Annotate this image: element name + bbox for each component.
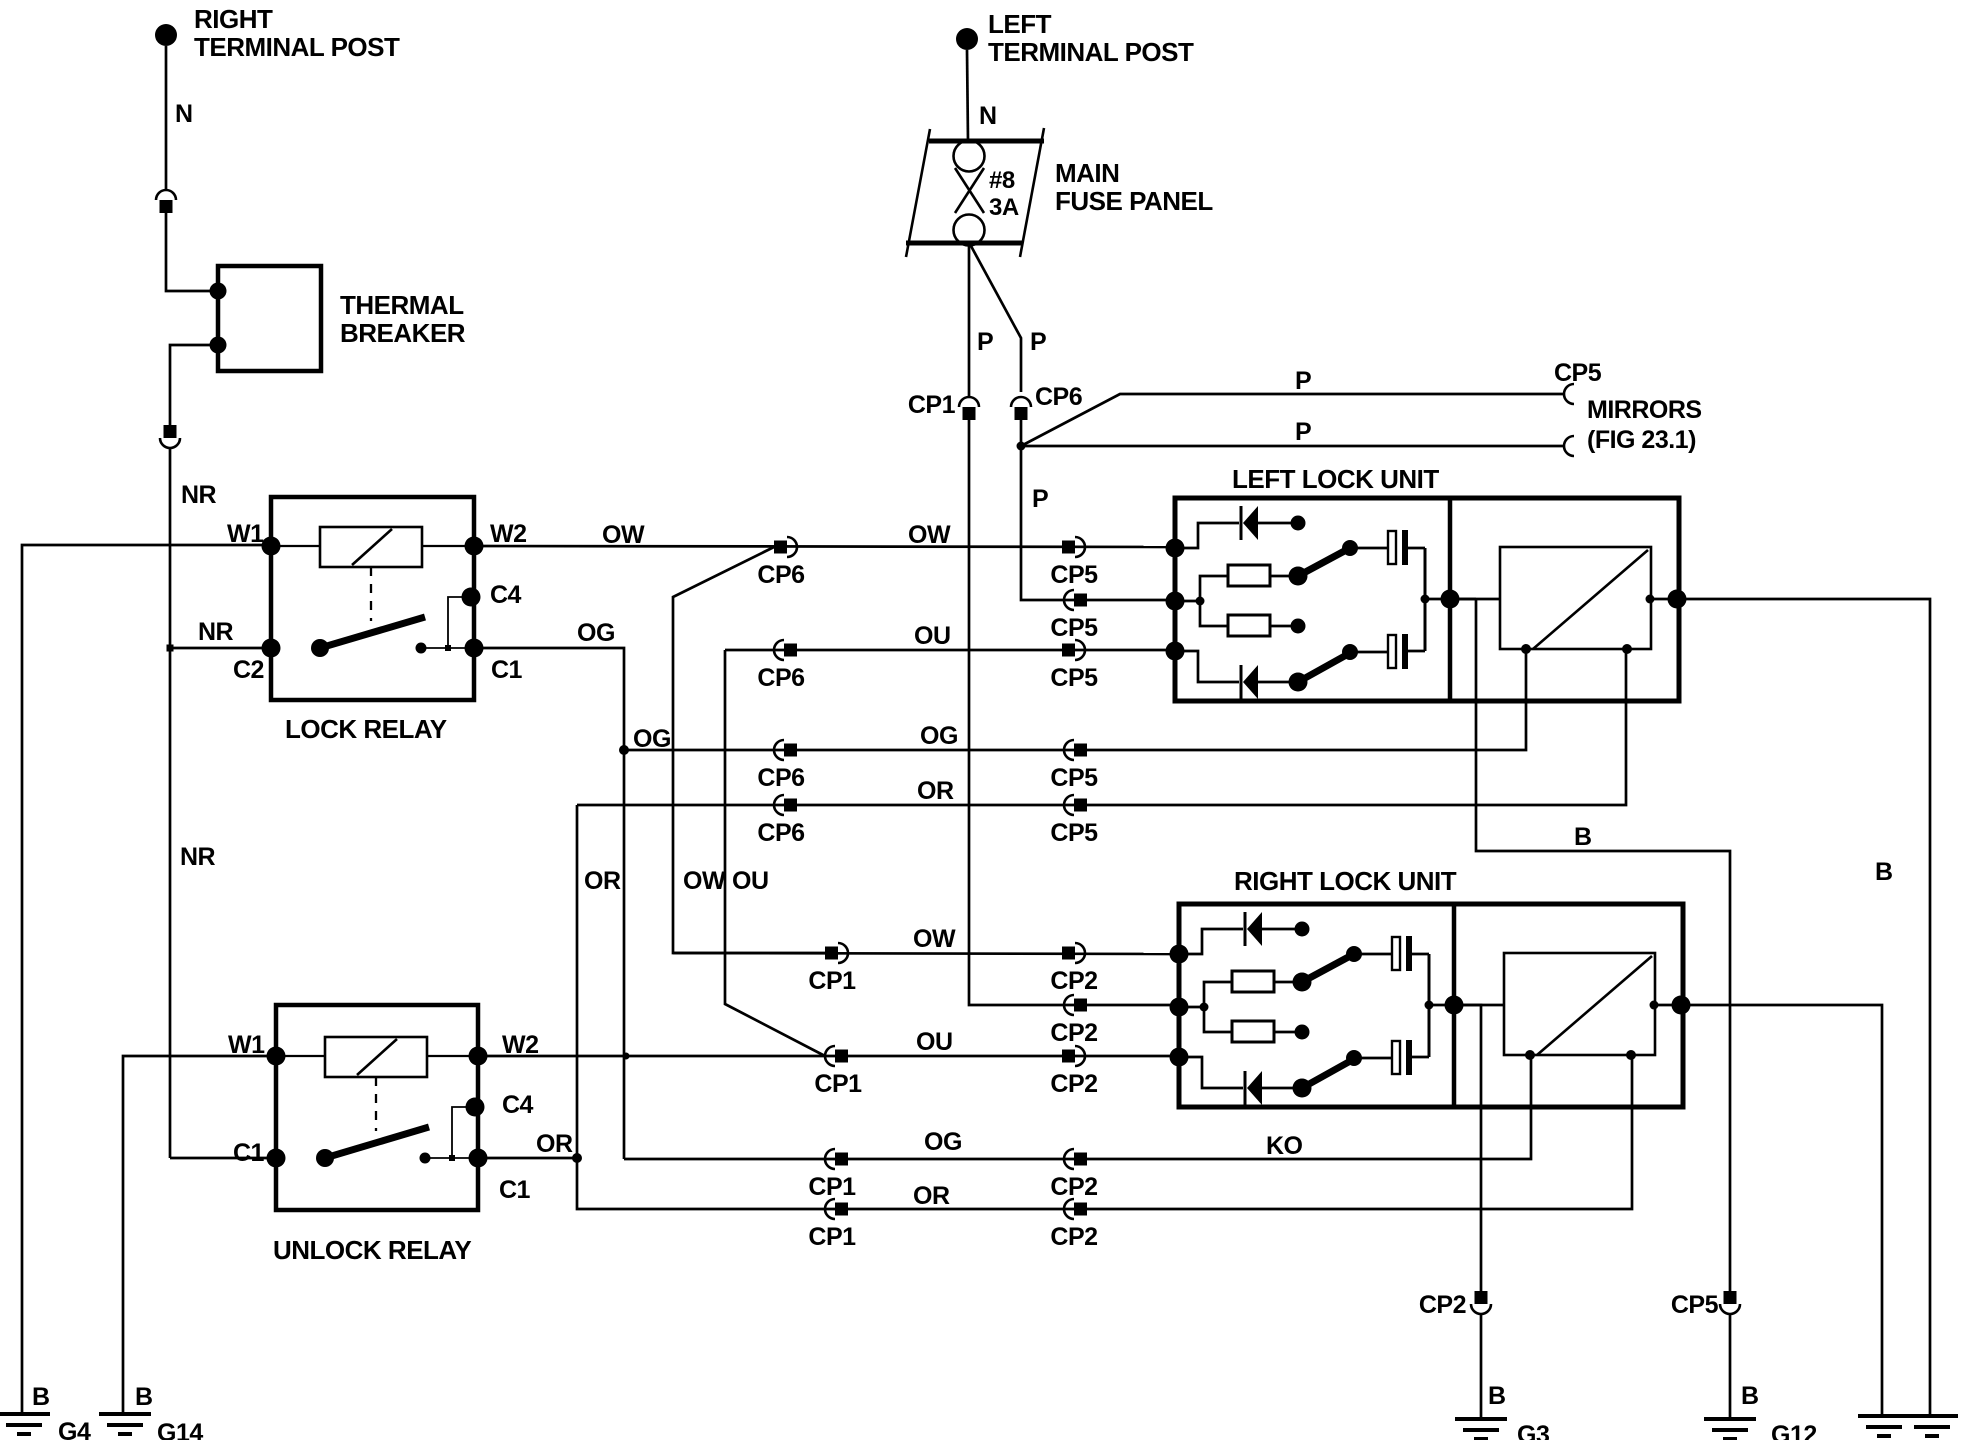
wire OW row (lock relay W2 to left lock unit)	[474, 521, 1175, 549]
wire OW branch to right lock unit	[673, 547, 825, 953]
svg-text:CP5: CP5	[1050, 664, 1098, 692]
unlock relay terminal W1	[228, 1031, 286, 1066]
svg-text:OR: OR	[536, 1130, 573, 1158]
left lock unit capacitor 1	[1350, 530, 1425, 565]
connector CP6 below fuse	[1011, 383, 1082, 420]
thermal breaker	[210, 266, 466, 371]
right lock unit terminal 1	[1170, 945, 1189, 964]
svg-text:3A: 3A	[989, 194, 1019, 221]
right lock unit box	[1179, 904, 1683, 1107]
ground G14	[99, 1383, 203, 1440]
wire NR	[170, 448, 217, 648]
connector CP2 on OR row	[1050, 1199, 1097, 1251]
svg-text:CP5: CP5	[1554, 359, 1602, 387]
svg-text:CP1: CP1	[808, 1223, 856, 1251]
connector CP2 on right P row	[1050, 995, 1097, 1047]
left lock unit diode 2	[1175, 651, 1291, 699]
wire OG drop to right lock unit KO row	[623, 750, 630, 1159]
wire OR row (left lock unit)	[577, 651, 1626, 805]
lock relay switch	[311, 617, 427, 657]
wire N (left)	[967, 50, 997, 141]
svg-text:C1: C1	[491, 656, 523, 684]
right lock unit capacitor common wire	[1425, 954, 1450, 1057]
wire B from right lock unit right terminal	[1681, 1005, 1882, 1415]
right lock unit divider	[1452, 906, 1457, 1105]
svg-text:(FIG 23.1): (FIG 23.1)	[1587, 426, 1696, 454]
left lock unit terminal 2	[1166, 592, 1185, 611]
svg-text:CP6: CP6	[757, 664, 804, 692]
right lock unit motor	[1454, 953, 1672, 1060]
label MIRRORS (FIG 23.1)	[1587, 396, 1702, 454]
wire CP2 to ground G3	[1480, 1314, 1483, 1418]
junction NR / C2 row	[167, 645, 174, 652]
svg-text:C1: C1	[499, 1176, 531, 1204]
connector CP5 on P row	[1050, 590, 1098, 642]
svg-text:KO: KO	[1266, 1132, 1303, 1160]
svg-text:B: B	[135, 1383, 153, 1411]
svg-text:THERMAL: THERMAL	[340, 290, 464, 320]
ground (far right inner)	[1858, 1416, 1910, 1436]
svg-text:OU: OU	[732, 867, 769, 895]
svg-text:OG: OG	[920, 722, 958, 750]
ground G12	[1704, 1382, 1817, 1440]
right lock unit right terminal	[1672, 996, 1691, 1015]
unlock relay switch	[316, 1127, 431, 1167]
connector CP5 on OU row	[1050, 640, 1098, 692]
wire B from left lock unit right terminal	[1677, 599, 1930, 1415]
svg-text:CP1: CP1	[908, 391, 956, 419]
wire OG from lock relay C1	[474, 619, 624, 750]
svg-text:NR: NR	[180, 843, 216, 871]
wire P to mirrors (lower)	[1021, 418, 1563, 446]
connector CP5 on OR row	[1050, 795, 1098, 847]
ground G4	[0, 1383, 91, 1440]
svg-text:TERMINAL POST: TERMINAL POST	[988, 37, 1194, 67]
left lock unit terminal 3	[1166, 642, 1185, 661]
svg-text:CP1: CP1	[814, 1070, 862, 1098]
unlock relay terminal W2	[469, 1031, 539, 1066]
wire OG row (left lock unit)	[624, 651, 1526, 753]
svg-text:CP5: CP5	[1050, 614, 1098, 642]
svg-text:FUSE PANEL: FUSE PANEL	[1055, 186, 1213, 216]
svg-text:P: P	[1295, 418, 1311, 446]
connector CP5 on OG row	[1050, 740, 1098, 792]
svg-text:CP1: CP1	[808, 967, 856, 995]
connector CP2 above ground G3	[1419, 1291, 1491, 1319]
svg-text:OG: OG	[924, 1128, 962, 1156]
svg-text:CP2: CP2	[1050, 1019, 1097, 1047]
svg-text:LEFT LOCK UNIT: LEFT LOCK UNIT	[1232, 464, 1439, 494]
svg-text:B: B	[1741, 1382, 1759, 1410]
svg-text:CP6: CP6	[1035, 383, 1082, 411]
svg-text:CP5: CP5	[1050, 764, 1098, 792]
lock relay coil	[271, 527, 474, 621]
wire P from fuse (left branch)	[969, 245, 993, 397]
svg-text:CP5: CP5	[1050, 561, 1098, 589]
wire OU drop to CP1	[725, 650, 825, 1056]
left lock unit resistor 1	[1175, 565, 1289, 606]
right lock unit junction node	[1445, 996, 1464, 1015]
lock relay terminal W2	[465, 520, 527, 556]
svg-text:P: P	[1295, 367, 1311, 395]
wire OG/KO row (right lock unit)	[624, 1057, 1531, 1160]
wire from thermal breaker	[170, 345, 214, 425]
connector CP6 on OU row	[757, 640, 804, 692]
svg-text:BREAKER: BREAKER	[340, 318, 466, 348]
left lock unit capacitor common wire	[1421, 548, 1446, 651]
svg-text:P: P	[977, 328, 993, 356]
right lock unit resistor 2	[1204, 1007, 1310, 1042]
wire OR from unlock relay C1	[478, 1130, 577, 1158]
svg-text:C4: C4	[502, 1091, 534, 1119]
svg-text:OG: OG	[633, 725, 671, 753]
svg-text:OU: OU	[914, 622, 951, 650]
svg-text:B: B	[32, 1383, 50, 1411]
connector CP1 on OU row	[814, 1046, 862, 1098]
right lock unit capacitor 1	[1354, 936, 1429, 971]
connector CP6 on OR row	[757, 795, 804, 847]
left lock unit switch 1	[1289, 540, 1359, 586]
svg-text:P: P	[1032, 485, 1048, 513]
svg-text:MAIN: MAIN	[1055, 158, 1119, 188]
left lock unit divider	[1448, 500, 1453, 699]
wire OR riser	[577, 805, 621, 1158]
svg-text:G12: G12	[1771, 1421, 1817, 1440]
wire NR to lock relay C2	[170, 618, 267, 648]
wire OW row (right lock unit)	[673, 925, 1179, 954]
right lock unit capacitor 2	[1354, 1040, 1429, 1075]
right terminal post	[155, 4, 400, 62]
connector CP6 on OG row	[757, 740, 804, 792]
svg-text:CP5: CP5	[1671, 1291, 1719, 1319]
right lock unit diode 2	[1179, 1057, 1295, 1105]
wire to thermal breaker	[166, 213, 214, 291]
svg-text:OG: OG	[577, 619, 615, 647]
right lock unit switch 1	[1293, 946, 1363, 992]
svg-text:NR: NR	[181, 481, 217, 509]
svg-text:OW: OW	[683, 867, 726, 895]
svg-text:OR: OR	[917, 777, 954, 805]
svg-text:TERMINAL POST: TERMINAL POST	[194, 32, 400, 62]
svg-text:OR: OR	[913, 1182, 950, 1210]
unlock relay terminal C1 (right)	[469, 1149, 531, 1205]
right lock unit diode 1	[1179, 912, 1310, 954]
right lock unit switch 2	[1293, 1050, 1363, 1098]
label UNLOCK RELAY	[273, 1235, 471, 1265]
svg-text:CP6: CP6	[757, 819, 804, 847]
ground (far right outer)	[1906, 1416, 1958, 1436]
lock relay terminal C2	[233, 639, 281, 685]
svg-text:LEFT: LEFT	[988, 9, 1052, 39]
connector CP2 on OG/KO row	[1050, 1149, 1097, 1201]
left lock unit capacitor 2	[1350, 634, 1425, 669]
left terminal post	[956, 9, 1194, 67]
svg-text:CP2: CP2	[1050, 967, 1097, 995]
svg-text:N: N	[175, 100, 193, 128]
wire P down from CP6	[1017, 420, 1026, 451]
svg-text:B: B	[1488, 1382, 1506, 1410]
junction OG	[619, 745, 629, 755]
svg-text:C2: C2	[233, 656, 264, 684]
svg-text:CP1: CP1	[808, 1173, 856, 1201]
connector on N wire (upper)	[156, 190, 176, 213]
svg-text:G3: G3	[1517, 1421, 1549, 1440]
connector CP2 on OW row	[1050, 943, 1097, 995]
right lock unit terminal 2	[1170, 998, 1189, 1017]
svg-text:NR: NR	[198, 618, 234, 646]
wire lock relay W1 to ground G4	[22, 545, 271, 1412]
svg-text:B: B	[1875, 858, 1893, 886]
wire P down to left lock unit feed	[1021, 446, 1175, 600]
right lock unit resistor 1	[1179, 971, 1293, 1012]
svg-text:OW: OW	[908, 521, 951, 549]
connector CP5 above ground G12	[1671, 1291, 1740, 1319]
svg-text:B: B	[1574, 823, 1592, 851]
lock relay terminal C4	[462, 581, 522, 609]
svg-text:CP2: CP2	[1050, 1070, 1097, 1098]
svg-text:OR: OR	[584, 867, 621, 895]
wire OU row (right lock unit)	[477, 1028, 1179, 1056]
svg-text:RIGHT LOCK UNIT: RIGHT LOCK UNIT	[1234, 866, 1457, 896]
lock relay box	[271, 497, 474, 700]
left lock unit resistor 2	[1200, 601, 1306, 636]
svg-text:CP2: CP2	[1419, 1291, 1466, 1319]
connector CP5 on OW row	[1050, 537, 1098, 589]
wire B from right lock unit junction	[1454, 1005, 1481, 1291]
unlock relay terminal C4	[466, 1091, 534, 1119]
right lock unit terminal 3	[1170, 1048, 1189, 1067]
connector CP5 to mirrors (upper)	[1554, 359, 1602, 404]
svg-text:CP6: CP6	[757, 561, 804, 589]
wire NR to unlock relay C1	[170, 1157, 272, 1160]
svg-text:LOCK RELAY: LOCK RELAY	[285, 714, 447, 744]
unlock relay box	[276, 1005, 478, 1210]
left lock unit right terminal	[1668, 590, 1687, 609]
svg-text:CP5: CP5	[1050, 819, 1098, 847]
wire OU row (left lock unit)	[725, 622, 1175, 650]
svg-text:C4: C4	[490, 581, 522, 609]
svg-text:OW: OW	[602, 521, 645, 549]
connector CP5 to mirrors (lower)	[1564, 436, 1574, 456]
svg-text:CP2: CP2	[1050, 1223, 1097, 1251]
left lock unit box	[1175, 498, 1679, 701]
wire B from left lock unit junction	[1450, 599, 1730, 1291]
svg-text:C1: C1	[233, 1139, 265, 1167]
left lock unit junction node	[1441, 590, 1460, 609]
lock relay C4 wire	[425, 597, 474, 651]
svg-text:OU: OU	[916, 1028, 953, 1056]
wire unlock relay W1 to ground G14	[123, 1056, 276, 1412]
junction OR	[572, 1153, 582, 1163]
left lock unit motor	[1450, 547, 1668, 654]
label LOCK RELAY	[285, 714, 447, 744]
svg-text:#8: #8	[989, 167, 1015, 194]
label RIGHT LOCK UNIT	[1234, 866, 1457, 896]
wire NR down to unlock relay	[170, 648, 216, 1158]
svg-text:P: P	[1030, 328, 1046, 356]
svg-text:UNLOCK RELAY: UNLOCK RELAY	[273, 1235, 471, 1265]
wire CP5 to ground G12	[1729, 1314, 1732, 1418]
svg-text:N: N	[979, 102, 997, 130]
svg-text:W2: W2	[490, 520, 527, 548]
wire P to mirrors (upper)	[1021, 367, 1563, 446]
svg-text:G14: G14	[157, 1419, 203, 1440]
svg-text:MIRRORS: MIRRORS	[1587, 396, 1702, 424]
left lock unit terminal 1	[1166, 539, 1185, 558]
connector CP2 on OU row	[1050, 1046, 1097, 1098]
label LEFT LOCK UNIT	[1232, 464, 1439, 494]
connector CP1 on OG/KO row	[808, 1149, 856, 1201]
wire OR row (right lock unit)	[577, 1057, 1632, 1210]
wire N (right)	[166, 46, 193, 190]
connector CP1 on OR row	[808, 1199, 856, 1251]
unlock relay terminal C1 (left)	[233, 1139, 286, 1168]
svg-text:G4: G4	[58, 1418, 91, 1440]
connector CP1 below fuse	[908, 391, 979, 420]
svg-text:RIGHT: RIGHT	[194, 4, 273, 34]
wire P from fuse (right branch)	[971, 246, 1046, 392]
connector CP6 on OW row	[757, 537, 804, 589]
main fuse panel	[906, 128, 1213, 257]
unlock relay C4 wire	[429, 1107, 478, 1161]
svg-text:CP6: CP6	[757, 764, 804, 792]
ground G3	[1455, 1382, 1549, 1440]
lock relay terminal C1	[465, 639, 523, 685]
unlock relay coil	[276, 1037, 478, 1131]
connector on NR wire (lower)	[160, 425, 180, 448]
svg-text:CP2: CP2	[1050, 1173, 1097, 1201]
left lock unit switch 2	[1289, 644, 1359, 692]
connector CP1 on OW row	[808, 943, 856, 995]
wire P down from CP1 to right lock unit feed	[969, 420, 1175, 1005]
lock relay terminal W1	[227, 520, 281, 556]
svg-text:OW: OW	[913, 925, 956, 953]
left lock unit diode 1	[1175, 506, 1306, 548]
